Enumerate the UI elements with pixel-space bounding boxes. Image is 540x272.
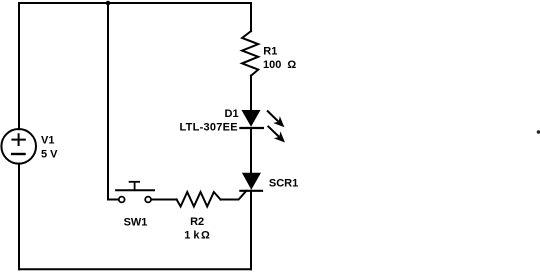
svg-text:V1: V1 [41, 135, 54, 147]
svg-text:D1: D1 [225, 108, 239, 120]
svg-text:100 Ω: 100 Ω [263, 59, 296, 71]
svg-text:SCR1: SCR1 [269, 177, 298, 189]
svg-text:5 V: 5 V [41, 149, 58, 161]
svg-text:1 kΩ: 1 kΩ [184, 229, 210, 241]
svg-text:R1: R1 [263, 45, 277, 57]
svg-text:SW1: SW1 [124, 216, 148, 228]
svg-text:LTL-307EE: LTL-307EE [180, 121, 238, 133]
svg-text:R2: R2 [190, 216, 204, 228]
